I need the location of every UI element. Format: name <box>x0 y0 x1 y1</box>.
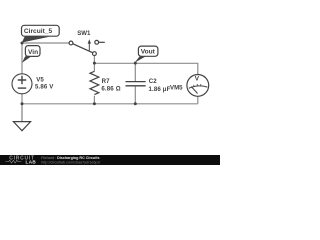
voltage source V5 <box>12 74 32 94</box>
node ground junction dot <box>21 102 24 105</box>
wire SW1 common down to node A <box>93 55 95 63</box>
svg-text:V: V <box>195 76 200 83</box>
svg-text:V5: V5 <box>36 77 44 84</box>
svg-text:Vin: Vin <box>28 49 38 56</box>
node A junction dot <box>93 62 96 65</box>
svg-text:1.86 μF: 1.86 μF <box>149 86 171 93</box>
node R7 bottom junction dot <box>93 102 96 105</box>
wire C2 bottom lead <box>134 86 136 104</box>
wire Vin node down to V5 top <box>21 43 23 74</box>
wire R7 bottom lead <box>93 96 95 104</box>
wire bottom rail <box>22 103 198 105</box>
label V5 value <box>35 77 54 91</box>
wire VM5 bottom lead to corner <box>197 96 199 104</box>
wire V5 bottom to bottom rail <box>21 94 23 104</box>
capacitor C2 <box>126 82 146 86</box>
wire top rail Vin: node to SW1 <box>22 42 69 44</box>
node C2 bottom junction dot <box>134 102 137 105</box>
svg-text:VM5: VM5 <box>170 84 183 91</box>
node Vout junction dot <box>134 62 137 65</box>
node label callout Vin <box>22 46 40 63</box>
wire R7 top lead <box>93 63 95 71</box>
ground <box>13 122 30 131</box>
svg-text:SW1: SW1 <box>77 30 91 37</box>
wire top rail Vout: node A to VM5 corner <box>94 63 197 74</box>
svg-text:Richard : Discharging RC Circu: Richard : Discharging RC Circuits <box>41 156 99 160</box>
svg-text:C2: C2 <box>149 78 158 85</box>
node Vin junction dot <box>21 42 24 45</box>
svg-text:Vout: Vout <box>141 49 156 56</box>
voltmeter VM5 <box>187 75 209 97</box>
svg-text:R7: R7 <box>102 78 111 85</box>
wire C2 top lead <box>134 63 136 81</box>
svg-text:5.86 V: 5.86 V <box>35 84 54 91</box>
svg-text:http://circuitlab.com/c6aa7ydr: http://circuitlab.com/c6aa7ydr1e6pz/ <box>41 161 101 165</box>
footer bar <box>0 155 220 165</box>
switch SW1 <box>69 39 105 55</box>
svg-text:6.86 Ω: 6.86 Ω <box>101 86 120 93</box>
node label callout Vout <box>135 46 158 63</box>
resistor R7 <box>90 71 99 94</box>
label R7 value <box>101 78 120 92</box>
node label callout Circuit_5 <box>22 25 60 42</box>
svg-text:LAB: LAB <box>26 160 37 165</box>
footer logo CIRCUITLAB <box>6 155 37 164</box>
label C2 value <box>149 78 171 93</box>
svg-text:Circuit_5: Circuit_5 <box>24 28 53 35</box>
wire ground stub <box>21 104 23 122</box>
